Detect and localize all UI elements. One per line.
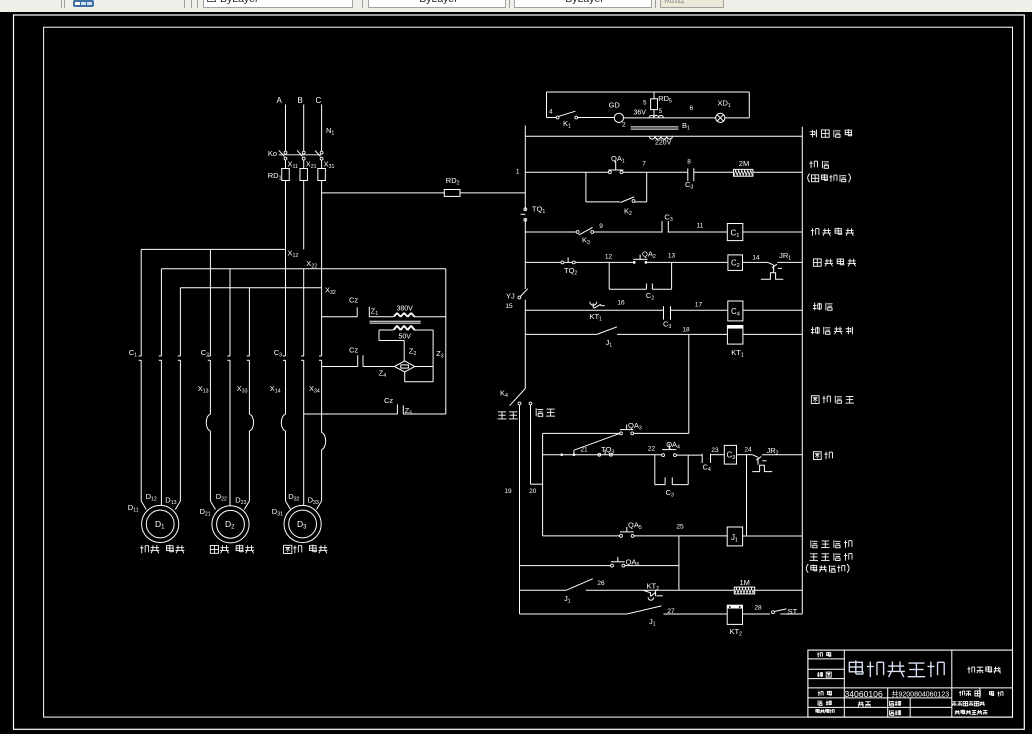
label 380V (397, 306, 414, 313)
node X11 (288, 160, 299, 171)
transformer Z1 primary (369, 313, 446, 317)
svg-text:34060106: 34060106 (845, 689, 883, 699)
wire branch 18 (688, 334, 690, 433)
node A (277, 96, 283, 105)
label manual feed (811, 540, 852, 548)
wire tap X32 (180, 286, 336, 297)
pushbutton QA6 (611, 557, 640, 568)
label B1 (682, 121, 690, 132)
contact J1 row6 (597, 327, 617, 349)
node D22 (216, 492, 227, 503)
node D31 (272, 507, 283, 518)
wire row4 mid1 (575, 261, 633, 263)
wire Z4 (363, 355, 394, 379)
transformer B1 primary (649, 115, 663, 117)
label auto (497, 412, 517, 419)
switch blade jog (574, 433, 621, 455)
wire row5 to rail (743, 309, 802, 311)
wire qa5 row right (634, 535, 727, 537)
contact J1 bottom (627, 606, 661, 628)
node X13 (198, 384, 209, 395)
svg-text:14: 14 (752, 255, 760, 262)
wire bottom row right (743, 613, 770, 615)
wire C3 to JR2 (737, 454, 753, 456)
svg-text:220V: 220V (655, 140, 672, 147)
node D23 (235, 495, 246, 506)
label 36V (634, 110, 647, 117)
wire node25 down (678, 536, 680, 590)
svg-text:1: 1 (516, 169, 520, 176)
label spindle (813, 452, 832, 460)
node X14 (270, 384, 281, 395)
wire row3 right (668, 231, 727, 233)
label loosen (809, 161, 829, 169)
wire row4 mid2 (647, 261, 728, 263)
node 11 (697, 223, 704, 230)
wire Z5 (403, 405, 446, 416)
contact J1 feed (564, 579, 593, 605)
node pivots (560, 453, 575, 456)
svg-text:C: C (316, 96, 322, 105)
node Cz lower (384, 396, 393, 405)
wire motor1 leg1 (141, 249, 146, 509)
wire row lamp (525, 135, 802, 137)
node D13 (165, 495, 176, 506)
label water pump (811, 228, 854, 236)
wire lamp right (725, 117, 749, 119)
wire motor2 leg2 (229, 269, 231, 506)
wire Z2 (379, 330, 416, 361)
switch K1 (547, 111, 615, 129)
node B (298, 96, 303, 105)
wire rectifier bottom (405, 372, 433, 382)
pushbutton QA4 (662, 440, 680, 457)
transformer Z1 core (370, 321, 421, 323)
wire left branch (542, 433, 544, 536)
label 220V (655, 140, 672, 147)
svg-text:9: 9 (599, 223, 603, 230)
wire motor3 leg1 (286, 431, 291, 510)
wire phase B (303, 105, 305, 152)
svg-text:Cz: Cz (349, 296, 358, 305)
wire Z3 (433, 330, 444, 382)
wire to C3 coil (711, 454, 725, 456)
switch ST (772, 607, 803, 616)
svg-text:Ko: Ko (268, 149, 277, 158)
wire feed row left (520, 589, 567, 591)
heater motor2 left (206, 414, 210, 431)
node 7 (642, 161, 646, 168)
svg-text:7: 7 (642, 161, 646, 168)
node 17 (695, 301, 703, 308)
wire row5 (525, 309, 663, 311)
wire tap X22 (161, 259, 445, 270)
wire motor2 leg3 (244, 288, 249, 510)
svg-text:Cz: Cz (384, 396, 393, 405)
svg-text:YJ: YJ (506, 292, 515, 301)
svg-text:ST: ST (788, 607, 798, 616)
svg-text:4: 4 (549, 109, 553, 116)
svg-text:24: 24 (744, 447, 752, 454)
label auto feed (810, 553, 852, 561)
transformer Z1 secondary (379, 326, 433, 330)
node X34 (309, 384, 320, 395)
contactor coil C4 (728, 301, 743, 321)
svg-text:A: A (277, 96, 283, 105)
wire row6 to rail (743, 333, 802, 335)
svg-text:共9200804060123: 共9200804060123 (892, 690, 950, 699)
contact KT1 row5 (590, 302, 605, 323)
node 28 (754, 605, 762, 612)
svg-text:B: B (298, 96, 303, 105)
text drawing number (845, 689, 883, 699)
wire tap X12 (141, 249, 298, 260)
node D21 (199, 507, 210, 518)
svg-text:15: 15 (505, 303, 513, 310)
wire spindle row left (543, 454, 662, 456)
wire Cz tap upper (322, 307, 358, 317)
label brake time (811, 327, 853, 335)
label fig no (818, 691, 832, 696)
contact C1 main (129, 348, 181, 360)
node 19 (504, 488, 512, 495)
wire left rail (524, 126, 526, 389)
svg-text:17: 17 (695, 301, 703, 308)
heater motor3 left (281, 414, 285, 431)
label date2 (889, 710, 900, 715)
relay YJ (505, 289, 527, 310)
wire qa5 row left (543, 535, 620, 537)
node 20 (529, 488, 537, 495)
node 16 (617, 300, 625, 307)
svg-text:23: 23 (711, 447, 719, 454)
node X31 (324, 160, 335, 171)
wire row4 left (525, 261, 561, 263)
node 27 (667, 608, 675, 615)
node N1 (326, 126, 334, 137)
svg-text:50V: 50V (399, 334, 412, 341)
contact C2 branch (609, 262, 671, 301)
wire feed row right (755, 589, 803, 591)
svg-text:16: 16 (617, 300, 625, 307)
node D33 (308, 495, 319, 506)
wire phase B lower (303, 269, 305, 506)
contact C3 row2 (685, 168, 694, 190)
wire j1 to rail (743, 535, 803, 537)
node D32 (288, 492, 299, 503)
svg-text:26: 26 (597, 580, 605, 587)
node 8 (687, 159, 691, 166)
svg-text:36V: 36V (634, 110, 647, 117)
svg-text:6: 6 (690, 105, 694, 112)
node 21 (580, 446, 588, 453)
terminal Z1 (369, 307, 378, 318)
svg-text:22: 22 (648, 446, 656, 453)
label check (989, 691, 1003, 696)
switch K3 (576, 227, 662, 246)
time relay coil KT2 (727, 605, 742, 637)
wire row6 left (525, 333, 597, 335)
label lamp signal (810, 129, 852, 137)
heater motor3 right (322, 433, 326, 450)
switch K2 branch (586, 172, 647, 217)
wire feed row mid (586, 589, 735, 591)
wire bottom row left (520, 613, 628, 615)
svg-text:2M: 2M (739, 159, 749, 168)
time relay coil KT1 (727, 326, 743, 359)
node 12 (605, 254, 613, 261)
switch K4 (510, 389, 532, 406)
label brake (813, 303, 833, 311)
label 50V (399, 334, 412, 341)
svg-text:8: 8 (687, 159, 691, 166)
svg-text:11: 11 (697, 223, 704, 230)
rectifier (394, 361, 414, 372)
fuse RD1 (268, 160, 326, 249)
node 25 (676, 524, 684, 531)
wire manual line (531, 405, 543, 485)
node 23 (711, 447, 719, 454)
label spindle motor (284, 545, 328, 554)
wire phase A lower (285, 249, 287, 414)
node Cz mid (349, 346, 358, 355)
svg-text:2: 2 (622, 122, 626, 129)
pushbutton QA2 (633, 250, 656, 264)
contact C4 row (702, 454, 711, 474)
transformer B1 secondary (649, 136, 672, 139)
thermal contact JR2 (752, 446, 802, 472)
node 4 (549, 109, 553, 116)
wire row4 right (743, 261, 768, 263)
node X21 (306, 160, 317, 171)
wire control feed right (460, 192, 525, 194)
wire Cz tap mid (322, 355, 358, 366)
fuse RD5 (643, 92, 672, 118)
wire bottom row mid (664, 613, 728, 615)
connector TQ3 (598, 445, 615, 456)
wire jog row (543, 432, 689, 434)
wire lamp box top (547, 92, 750, 118)
node 24 (744, 447, 752, 454)
text class number (892, 690, 981, 699)
wire control feed (322, 192, 445, 194)
wire phase C lower (321, 193, 323, 433)
motor D1 (142, 505, 179, 542)
motor D3 (284, 505, 321, 542)
node 9 (599, 223, 603, 230)
text unit value (858, 701, 871, 706)
label water pump motor (140, 545, 184, 554)
label scale (817, 652, 831, 657)
title block (808, 650, 1013, 717)
contact C3 row3 (662, 213, 673, 233)
pushbutton QA5 (620, 521, 642, 538)
node 6 (690, 105, 694, 112)
label motor feed (806, 564, 849, 573)
wire row2 to rail (753, 171, 802, 173)
svg-text:21: 21 (580, 446, 588, 453)
svg-text:GD: GD (609, 101, 621, 110)
wire row6 mid (617, 333, 727, 335)
wire row2 left (525, 171, 608, 173)
label drafter (816, 709, 834, 713)
wire row3 left (525, 231, 576, 233)
label manual (536, 408, 555, 416)
electromagnet 1M (734, 578, 754, 594)
wire rectifier right (415, 366, 433, 368)
svg-text:19: 19 (504, 488, 512, 495)
label date1 (889, 701, 900, 706)
label oil pump motor (210, 545, 254, 554)
wire right rail (801, 127, 803, 614)
fuse RD2 (444, 176, 460, 196)
pushbutton QA3 (620, 421, 642, 435)
pushbutton QA1 (608, 154, 625, 174)
connector TQ2 (561, 257, 577, 276)
label loosen note (808, 174, 851, 183)
thermal contact JR1 (761, 251, 802, 279)
node C (316, 96, 322, 105)
contact C3 main (274, 348, 322, 360)
svg-text:13: 13 (668, 253, 676, 260)
wire node24 down (746, 455, 748, 536)
wire bottom tap (304, 404, 398, 414)
wire motor1 leg3 (175, 288, 180, 510)
svg-text:20: 20 (529, 488, 537, 495)
contact C2 main (201, 348, 250, 360)
label school line2 (955, 710, 988, 715)
contactor coil C2 (728, 255, 743, 271)
wire row5 right (671, 309, 728, 311)
wire transformer right (445, 269, 447, 414)
wire motor1 leg2 (160, 269, 162, 506)
contact C3 row5 (663, 306, 671, 330)
label K4 (500, 389, 508, 400)
node 13 (668, 253, 676, 260)
wire row2 right (694, 171, 734, 173)
node Cz upper (349, 296, 358, 305)
wire row3 to rail (743, 231, 803, 233)
contactor coil C1 (727, 224, 743, 241)
wire qa6 row (520, 565, 679, 567)
wire motor2 leg1 (210, 249, 215, 509)
electromagnet 2M (734, 159, 753, 176)
svg-text:Cz: Cz (349, 346, 358, 355)
lamp XD1 (716, 99, 731, 123)
contact KT2 feed (644, 582, 663, 601)
label school line1 (952, 701, 985, 705)
svg-text:1M: 1M (740, 578, 750, 587)
motor D2 (212, 506, 249, 543)
svg-text:25: 25 (676, 524, 684, 531)
label oil pump (813, 258, 856, 266)
wire phase A (285, 105, 287, 152)
relay coil J1 (727, 527, 742, 546)
connector TQ1 (521, 205, 546, 222)
svg-text:12: 12 (605, 254, 613, 261)
svg-text:18: 18 (682, 327, 690, 334)
node 22 (648, 446, 656, 453)
node 1 (516, 169, 520, 176)
node X33 (237, 384, 248, 395)
wire auto line (519, 405, 521, 614)
contactor coil C3 (724, 445, 736, 464)
svg-text:380V: 380V (397, 306, 414, 313)
node D11 (128, 503, 139, 514)
wire spindle row mid (676, 454, 702, 456)
wire phase C (321, 105, 323, 152)
node D12 (146, 492, 157, 503)
node 26 (597, 580, 605, 587)
node 14 (752, 255, 760, 262)
label graduation design (967, 666, 1001, 673)
label material (817, 672, 831, 677)
switch Ko (268, 149, 323, 160)
svg-text:28: 28 (754, 605, 762, 612)
wire row2 mid (623, 171, 688, 173)
label unit (818, 700, 831, 705)
transformer B1 core (631, 127, 679, 129)
wire lamp mid (624, 117, 716, 119)
title text (849, 660, 944, 677)
contact C3 hold branch (655, 455, 688, 499)
heater motor2 right (249, 414, 253, 431)
lamp GD (609, 101, 626, 129)
node 18 (682, 327, 690, 334)
label jog (811, 396, 854, 404)
wire motor3 leg3 (317, 450, 322, 510)
